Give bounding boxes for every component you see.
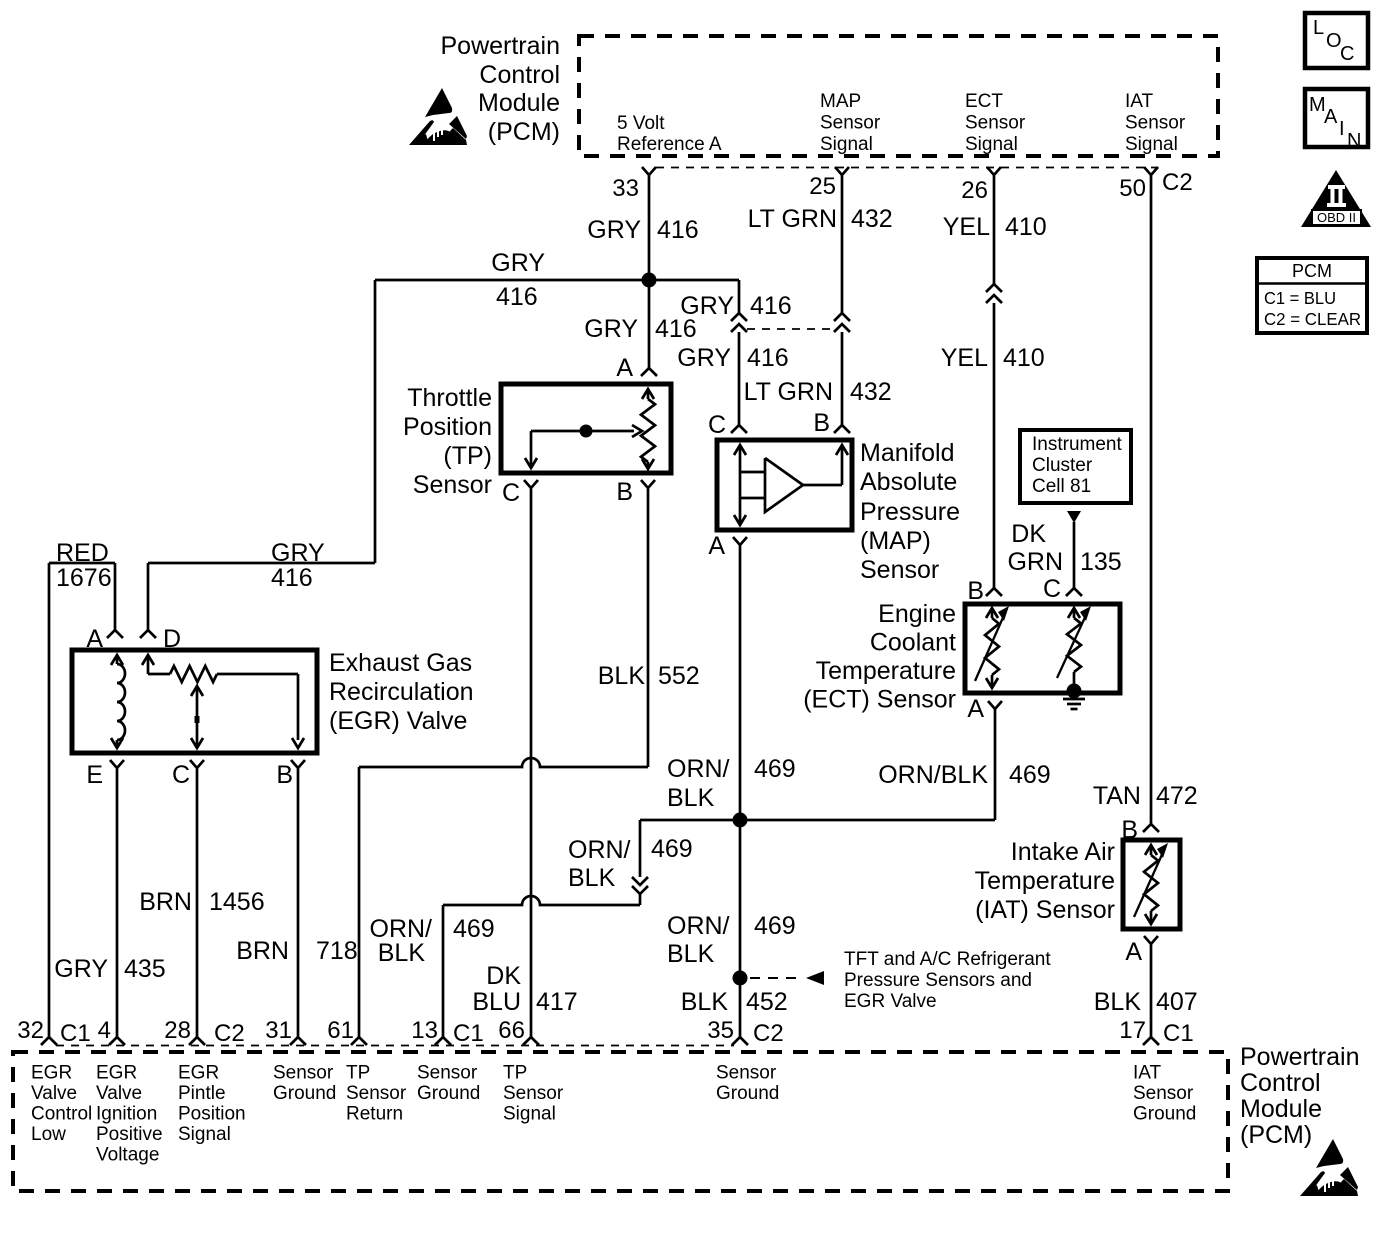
svg-text:A: A: [1324, 106, 1338, 128]
svg-text:Module: Module: [1240, 1095, 1322, 1123]
svg-text:472: 472: [1156, 782, 1198, 810]
svg-text:BLK: BLK: [681, 988, 729, 1016]
svg-text:PCM: PCM: [1292, 261, 1332, 281]
svg-text:B: B: [276, 761, 293, 789]
svg-text:E: E: [86, 761, 103, 789]
svg-text:Engine: Engine: [878, 600, 956, 628]
svg-text:MAP: MAP: [820, 91, 861, 112]
svg-text:Ground: Ground: [1133, 1104, 1196, 1125]
svg-text:1676: 1676: [56, 564, 112, 592]
svg-text:C1: C1: [60, 1020, 91, 1047]
svg-text:Exhaust Gas: Exhaust Gas: [329, 649, 472, 677]
svg-text:GRY: GRY: [54, 955, 108, 983]
svg-text:4: 4: [98, 1017, 111, 1044]
svg-text:416: 416: [496, 283, 538, 311]
svg-text:Recirculation: Recirculation: [329, 678, 474, 706]
svg-text:Ground: Ground: [273, 1083, 336, 1104]
svg-text:435: 435: [124, 955, 166, 983]
svg-text:Ground: Ground: [716, 1083, 779, 1104]
svg-text:B: B: [967, 577, 984, 605]
svg-text:B: B: [1121, 816, 1138, 844]
svg-text:410: 410: [1003, 344, 1045, 372]
svg-text:A: A: [616, 354, 633, 382]
svg-text:YEL: YEL: [941, 344, 988, 372]
svg-text:C2: C2: [1162, 169, 1193, 196]
svg-text:5 Volt: 5 Volt: [617, 113, 665, 134]
svg-text:BRN: BRN: [236, 937, 289, 965]
svg-text:Sensor: Sensor: [417, 1063, 478, 1084]
svg-text:469: 469: [754, 912, 796, 940]
svg-text:(IAT) Sensor: (IAT) Sensor: [975, 896, 1115, 924]
svg-text:Position: Position: [403, 413, 492, 441]
svg-text:Temperature: Temperature: [816, 657, 956, 685]
svg-text:BRN: BRN: [139, 888, 192, 916]
svg-text:C1 = BLU: C1 = BLU: [1264, 288, 1336, 308]
svg-text:Powertrain: Powertrain: [441, 32, 561, 60]
svg-text:417: 417: [536, 988, 578, 1016]
svg-text:(ECT) Sensor: (ECT) Sensor: [803, 686, 956, 714]
svg-text:C2: C2: [753, 1020, 784, 1047]
svg-text:66: 66: [498, 1017, 525, 1044]
svg-text:Sensor: Sensor: [1125, 113, 1186, 134]
svg-text:Instrument: Instrument: [1032, 434, 1122, 455]
svg-text:C1: C1: [1163, 1020, 1194, 1047]
svg-text:B: B: [813, 409, 830, 437]
svg-text:Absolute: Absolute: [860, 468, 957, 496]
svg-text:C: C: [708, 411, 726, 439]
svg-text:I: I: [1339, 118, 1345, 140]
svg-text:Positive: Positive: [96, 1124, 163, 1145]
svg-text:(MAP): (MAP): [860, 527, 931, 555]
svg-text:Pintle: Pintle: [178, 1083, 226, 1104]
svg-text:Sensor: Sensor: [413, 471, 492, 499]
svg-text:61: 61: [327, 1017, 354, 1044]
svg-text:D: D: [163, 625, 181, 653]
svg-text:469: 469: [453, 915, 495, 943]
svg-text:Manifold: Manifold: [860, 439, 955, 467]
svg-text:416: 416: [271, 564, 313, 592]
svg-text:26: 26: [961, 177, 988, 204]
svg-text:Sensor: Sensor: [716, 1063, 777, 1084]
svg-text:135: 135: [1080, 548, 1122, 576]
svg-text:RED: RED: [56, 539, 109, 567]
svg-text:35: 35: [707, 1017, 734, 1044]
svg-text:416: 416: [750, 292, 792, 320]
svg-text:TP: TP: [346, 1063, 370, 1084]
svg-text:BLK: BLK: [598, 662, 646, 690]
svg-text:Control: Control: [479, 61, 560, 89]
svg-text:Signal: Signal: [178, 1124, 231, 1145]
svg-text:TFT and A/C Refrigerant: TFT and A/C Refrigerant: [844, 949, 1051, 970]
svg-text:Return: Return: [346, 1104, 403, 1125]
svg-text:Signal: Signal: [965, 134, 1018, 155]
svg-text:Sensor: Sensor: [860, 556, 939, 584]
svg-text:ECT: ECT: [965, 91, 1003, 112]
svg-text:A: A: [1125, 938, 1142, 966]
svg-text:BLK: BLK: [667, 784, 715, 812]
svg-text:C: C: [172, 761, 190, 789]
svg-text:(TP): (TP): [443, 442, 492, 470]
svg-text:BLK: BLK: [568, 864, 616, 892]
svg-text:DK: DK: [1011, 520, 1046, 548]
svg-text:EGR: EGR: [178, 1063, 219, 1084]
svg-text:50: 50: [1119, 175, 1146, 202]
svg-text:ORN/BLK: ORN/BLK: [878, 761, 988, 789]
svg-text:C1: C1: [453, 1020, 484, 1047]
svg-text:469: 469: [1009, 761, 1051, 789]
svg-text:C: C: [502, 479, 520, 507]
svg-text:GRY: GRY: [584, 315, 638, 343]
svg-text:Sensor: Sensor: [1133, 1083, 1194, 1104]
svg-text:Sensor: Sensor: [965, 113, 1026, 134]
svg-text:Cell 81: Cell 81: [1032, 476, 1091, 497]
svg-text:469: 469: [754, 755, 796, 783]
svg-text:416: 416: [657, 216, 699, 244]
svg-text:31: 31: [265, 1017, 292, 1044]
svg-text:Voltage: Voltage: [96, 1145, 159, 1166]
svg-text:Temperature: Temperature: [975, 867, 1115, 895]
svg-text:28: 28: [164, 1017, 191, 1044]
svg-text:DK: DK: [486, 962, 521, 990]
svg-text:TAN: TAN: [1093, 782, 1141, 810]
svg-text:YEL: YEL: [943, 213, 990, 241]
svg-text:Ground: Ground: [417, 1083, 480, 1104]
svg-text:N: N: [1347, 130, 1361, 152]
svg-text:B: B: [616, 478, 633, 506]
svg-text:Signal: Signal: [503, 1104, 556, 1125]
svg-text:416: 416: [747, 344, 789, 372]
svg-text:Sensor: Sensor: [820, 113, 881, 134]
svg-text:Ignition: Ignition: [96, 1104, 157, 1125]
svg-text:BLU: BLU: [472, 988, 521, 1016]
svg-text:C2 = CLEAR: C2 = CLEAR: [1264, 309, 1361, 329]
svg-text:(EGR) Valve: (EGR) Valve: [329, 707, 467, 735]
svg-text:Coolant: Coolant: [870, 629, 956, 657]
svg-text:432: 432: [851, 205, 893, 233]
svg-text:ORN/: ORN/: [667, 755, 730, 783]
svg-text:LT GRN: LT GRN: [744, 378, 833, 406]
svg-text:469: 469: [651, 835, 693, 863]
svg-text:25: 25: [809, 173, 836, 200]
svg-text:Control: Control: [31, 1104, 92, 1125]
svg-text:13: 13: [411, 1017, 438, 1044]
svg-text:EGR Valve: EGR Valve: [844, 991, 937, 1012]
svg-text:Pressure Sensors and: Pressure Sensors and: [844, 970, 1032, 991]
svg-text:EGR: EGR: [96, 1063, 137, 1084]
svg-text:Sensor: Sensor: [346, 1083, 407, 1104]
svg-text:A: A: [708, 532, 725, 560]
svg-text:IAT: IAT: [1133, 1063, 1162, 1084]
svg-text:GRY: GRY: [677, 344, 731, 372]
svg-text:407: 407: [1156, 988, 1198, 1016]
svg-text:410: 410: [1005, 213, 1047, 241]
svg-text:OBD II: OBD II: [1317, 210, 1356, 225]
svg-text:L: L: [1313, 17, 1324, 39]
svg-text:A: A: [967, 695, 984, 723]
svg-text:ORN/: ORN/: [568, 836, 631, 864]
svg-text:Control: Control: [1240, 1069, 1321, 1097]
svg-text:GRY: GRY: [680, 292, 734, 320]
svg-text:Sensor: Sensor: [503, 1083, 564, 1104]
svg-text:Cluster: Cluster: [1032, 455, 1093, 476]
svg-text:C2: C2: [214, 1020, 245, 1047]
svg-text:718: 718: [316, 937, 358, 965]
svg-text:33: 33: [612, 175, 639, 202]
svg-text:C: C: [1340, 43, 1354, 65]
svg-text:Valve: Valve: [31, 1083, 77, 1104]
svg-text:GRY: GRY: [271, 539, 325, 567]
svg-text:Signal: Signal: [1125, 134, 1178, 155]
svg-text:GRY: GRY: [491, 249, 545, 277]
svg-text:GRN: GRN: [1007, 548, 1063, 576]
svg-text:(PCM): (PCM): [488, 118, 560, 146]
svg-text:A: A: [86, 625, 103, 653]
svg-text:C: C: [1043, 575, 1061, 603]
svg-text:EGR: EGR: [31, 1063, 72, 1084]
svg-text:Signal: Signal: [820, 134, 873, 155]
svg-text:(PCM): (PCM): [1240, 1121, 1312, 1149]
svg-text:BLK: BLK: [378, 939, 426, 967]
svg-text:ORN/: ORN/: [667, 912, 730, 940]
svg-text:Reference A: Reference A: [617, 134, 722, 155]
svg-text:552: 552: [658, 662, 700, 690]
svg-text:BLK: BLK: [667, 940, 715, 968]
svg-text:1456: 1456: [209, 888, 265, 916]
svg-text:Pressure: Pressure: [860, 498, 960, 526]
svg-text:452: 452: [746, 988, 788, 1016]
svg-text:IAT: IAT: [1125, 91, 1154, 112]
svg-text:Throttle: Throttle: [407, 384, 492, 412]
svg-text:BLK: BLK: [1094, 988, 1142, 1016]
svg-text:Sensor: Sensor: [273, 1063, 334, 1084]
svg-text:LT GRN: LT GRN: [748, 205, 837, 233]
svg-text:32: 32: [17, 1017, 44, 1044]
svg-text:TP: TP: [503, 1063, 527, 1084]
svg-text:Position: Position: [178, 1104, 246, 1125]
svg-text:Valve: Valve: [96, 1083, 142, 1104]
svg-text:17: 17: [1119, 1017, 1146, 1044]
svg-text:Low: Low: [31, 1124, 66, 1145]
svg-text:432: 432: [850, 378, 892, 406]
svg-text:Powertrain: Powertrain: [1240, 1043, 1360, 1071]
svg-text:Intake Air: Intake Air: [1011, 838, 1115, 866]
svg-text:Module: Module: [478, 89, 560, 117]
svg-text:GRY: GRY: [587, 216, 641, 244]
